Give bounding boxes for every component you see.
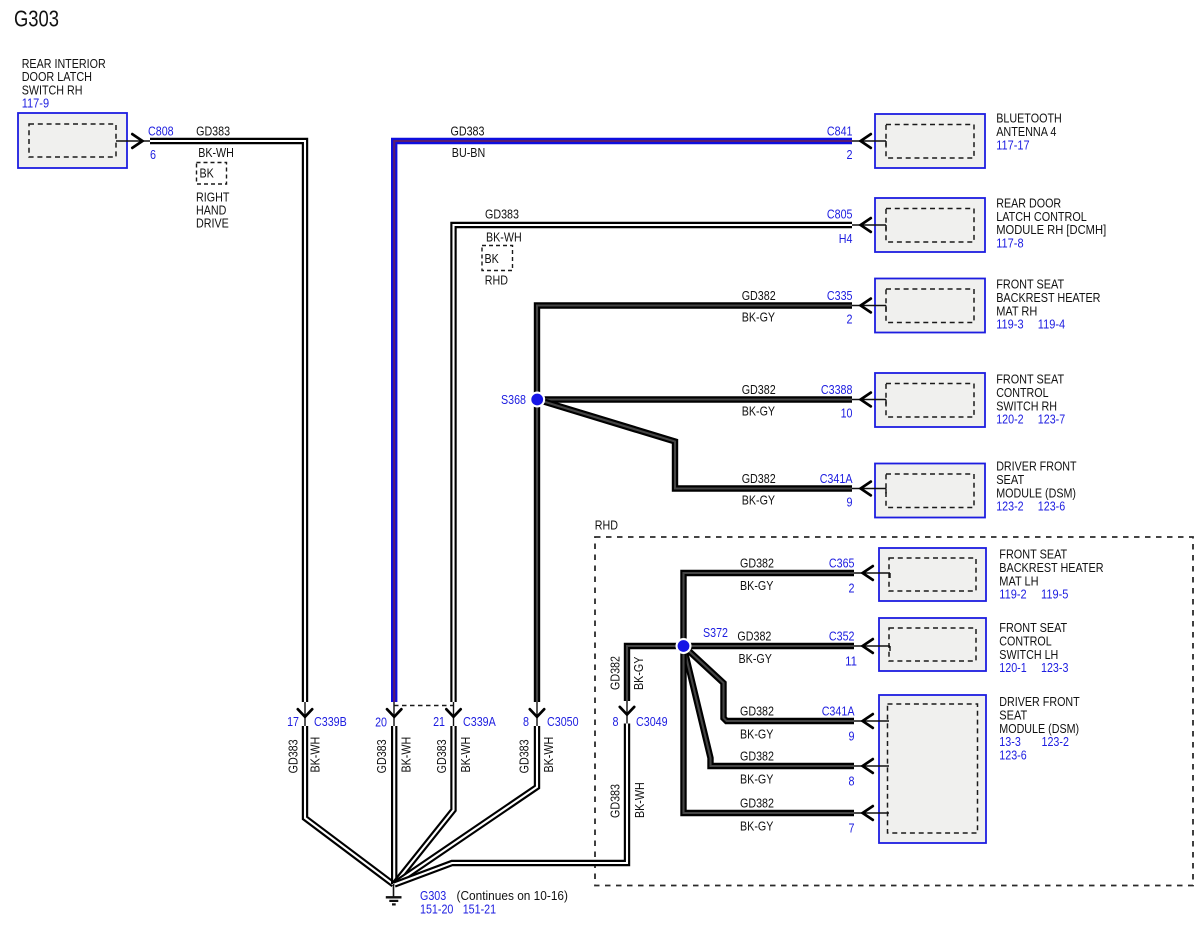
arrow C841 xyxy=(861,134,871,148)
svg-text:BK-WH: BK-WH xyxy=(198,145,234,160)
svg-text:BU-BN: BU-BN xyxy=(452,145,485,160)
component BLUETOOTH ANTENNA 4 box xyxy=(875,114,985,168)
ground G303 symbol xyxy=(393,884,395,897)
arrow C352 xyxy=(863,639,873,653)
arrow C3388 xyxy=(861,393,871,407)
dashed connector C339A outline xyxy=(394,705,454,707)
svg-text:GD383: GD383 xyxy=(196,123,230,138)
svg-text:BK: BK xyxy=(485,251,500,266)
pin lead C339A 21 xyxy=(453,701,455,726)
svg-text:GD383: GD383 xyxy=(516,739,531,773)
lead line into C352 box xyxy=(854,645,890,647)
wire GD382 BK-GY from C335 pin 2 down through S368 to C3050 pin 8 xyxy=(537,306,852,703)
svg-text:C808: C808 xyxy=(148,124,174,139)
svg-text:C365: C365 xyxy=(829,556,855,571)
svg-text:BK-GY: BK-GY xyxy=(740,578,774,593)
svg-text:BK-GY: BK-GY xyxy=(740,772,774,787)
svg-text:123-7: 123-7 xyxy=(1038,412,1065,427)
svg-text:9: 9 xyxy=(847,495,853,510)
svg-text:21: 21 xyxy=(433,714,445,729)
wire GD382 BK-GY from C365 pin 2 down to S372 xyxy=(684,573,855,646)
arrow C805 xyxy=(861,218,871,232)
wire GD382 BK-GY from S368 to C341A pin 9 xyxy=(537,400,852,489)
svg-text:117-17: 117-17 xyxy=(996,137,1029,152)
svg-text:DRIVE: DRIVE xyxy=(196,216,229,231)
wire GD382 BK-GY from S372 to DSM pin 8 xyxy=(684,646,855,766)
dashed option box BK (right hand drive) C808 xyxy=(197,163,227,185)
svg-text:123-6: 123-6 xyxy=(1038,499,1065,514)
arrow C808 xyxy=(132,134,142,148)
svg-text:2: 2 xyxy=(847,312,853,327)
arrow pin 8 C3049 xyxy=(620,707,634,715)
arrow DSM pin 8 xyxy=(863,759,873,773)
svg-text:117-9: 117-9 xyxy=(22,96,49,111)
svg-text:119-2: 119-2 xyxy=(999,587,1026,602)
pin lead C3049 8 xyxy=(626,700,628,724)
lead line into C805 box xyxy=(852,224,886,226)
wire GD382 BK-GY from S372 to DSM pin 7 xyxy=(684,646,855,813)
svg-text:GD383: GD383 xyxy=(608,784,623,818)
lead line into DSM pin 7 xyxy=(854,812,889,814)
wire GD383 BK-WH below pin 8 C3050 to ground xyxy=(395,726,538,884)
wire GD382 BK-GY from S372 to C352 pin 11 and left to C3049 pin 8 xyxy=(627,646,854,701)
arrow DSM pin 7 xyxy=(863,806,873,820)
svg-text:C339A: C339A xyxy=(463,714,496,729)
splice S368 xyxy=(529,392,545,408)
svg-text:BK-GY: BK-GY xyxy=(740,727,774,742)
svg-text:C841: C841 xyxy=(827,124,853,139)
wire GD383 BK-WH from C808 to C339B pin 17 xyxy=(150,141,305,702)
svg-text:120-1: 120-1 xyxy=(999,660,1026,675)
svg-text:GD383: GD383 xyxy=(285,739,300,773)
svg-text:C339B: C339B xyxy=(314,714,347,729)
component REAR INTERIOR DOOR LATCH SWITCH RH box xyxy=(18,113,127,168)
component FRONT SEAT CONTROL SWITCH RH box xyxy=(875,373,985,427)
svg-text:GD382: GD382 xyxy=(740,796,774,811)
svg-text:151-21: 151-21 xyxy=(463,902,496,917)
svg-text:BK-GY: BK-GY xyxy=(742,404,776,419)
svg-text:BK-WH: BK-WH xyxy=(486,230,522,245)
wire GD383 BK-WH below pin 21 to ground xyxy=(394,726,454,885)
svg-text:119-5: 119-5 xyxy=(1041,587,1068,602)
arrow pin 8 C3050 xyxy=(530,709,544,717)
wire GD383 BK-WH below C3049 pin 8 to ground xyxy=(395,724,628,885)
svg-text:RHD: RHD xyxy=(485,273,508,288)
svg-text:BK-GY: BK-GY xyxy=(742,310,776,325)
svg-text:2: 2 xyxy=(847,147,853,162)
arrow pin 21 C339A xyxy=(446,709,460,717)
svg-text:123-6: 123-6 xyxy=(999,748,1026,763)
svg-text:GD382: GD382 xyxy=(740,749,774,764)
pin lead C339A 20 xyxy=(393,701,395,726)
svg-text:117-8: 117-8 xyxy=(996,236,1023,251)
arrow pin 17 C339B xyxy=(298,709,312,717)
svg-text:GD382: GD382 xyxy=(742,471,776,486)
svg-text:123-2: 123-2 xyxy=(996,499,1023,514)
svg-text:C341A: C341A xyxy=(822,704,855,719)
wire GD383 BK-WH from C805 pin H4 to C339A pin 21 xyxy=(454,225,853,702)
arrow C341A xyxy=(861,482,871,496)
arrow DSM pin 9 xyxy=(863,714,873,728)
svg-text:BK-GY: BK-GY xyxy=(742,493,776,508)
svg-text:C352: C352 xyxy=(829,629,855,644)
arrow C365 xyxy=(863,566,873,580)
svg-text:RHD: RHD xyxy=(595,518,618,533)
svg-text:120-2: 120-2 xyxy=(996,412,1023,427)
dashed region RHD xyxy=(595,537,1193,886)
wire GD382 BK-GY from S372 to DSM C341A pin 9 xyxy=(684,646,855,721)
svg-text:BK-GY: BK-GY xyxy=(740,819,774,834)
svg-text:GD382: GD382 xyxy=(608,656,623,690)
svg-text:119-3: 119-3 xyxy=(996,317,1023,332)
svg-text:C335: C335 xyxy=(827,288,853,303)
svg-text:GD382: GD382 xyxy=(742,288,776,303)
dashed option box BK (RHD) C805 xyxy=(482,246,513,271)
lead line into C3388 box xyxy=(852,399,886,401)
svg-text:20: 20 xyxy=(375,715,387,730)
svg-text:S368: S368 xyxy=(501,392,526,407)
svg-text:8: 8 xyxy=(613,714,619,729)
svg-text:123-3: 123-3 xyxy=(1041,660,1068,675)
svg-text:GD383: GD383 xyxy=(485,207,519,222)
wire GD383 BU-BN from C841 pin 2 to C339A pin 20 xyxy=(394,141,852,702)
pin lead C3050 8 xyxy=(536,701,538,726)
svg-text:119-4: 119-4 xyxy=(1038,317,1065,332)
lead line into C341A box xyxy=(852,488,886,490)
lead line into C365 box xyxy=(854,572,890,574)
svg-text:10: 10 xyxy=(841,406,853,421)
svg-text:GD382: GD382 xyxy=(740,556,774,571)
component DRIVER FRONT SEAT MODULE DSM box xyxy=(875,464,985,518)
lead line into C335 box xyxy=(852,305,886,307)
svg-text:S372: S372 xyxy=(703,625,728,640)
svg-text:8: 8 xyxy=(523,714,529,729)
svg-text:7: 7 xyxy=(849,821,855,836)
wire GD382 BK-GY from S368 to C3388 pin 10 xyxy=(537,396,852,402)
svg-text:C3049: C3049 xyxy=(636,714,668,729)
svg-text:BK-GY: BK-GY xyxy=(739,651,773,666)
svg-text:2: 2 xyxy=(849,581,855,596)
svg-text:GD382: GD382 xyxy=(740,704,774,719)
svg-text:BK-WH: BK-WH xyxy=(308,737,323,773)
splice S372 xyxy=(676,638,692,654)
svg-text:9: 9 xyxy=(849,729,855,744)
svg-text:11: 11 xyxy=(845,654,857,669)
pin lead C339B 17 xyxy=(304,701,306,726)
component REAR DOOR LATCH CONTROL MODULE RH box xyxy=(875,198,985,252)
component FRONT SEAT BACKREST HEATER MAT LH box xyxy=(879,548,986,601)
svg-text:151-20: 151-20 xyxy=(420,902,453,917)
lead line into DSM pin 8 xyxy=(854,765,889,767)
svg-text:BK-WH: BK-WH xyxy=(632,782,647,818)
svg-text:C3388: C3388 xyxy=(821,382,853,397)
svg-text:H4: H4 xyxy=(839,231,853,246)
svg-text:GD382: GD382 xyxy=(742,382,776,397)
svg-text:GD383: GD383 xyxy=(434,739,449,773)
svg-text:C341A: C341A xyxy=(820,471,853,486)
svg-text:BK-GY: BK-GY xyxy=(631,656,646,690)
svg-text:GD383: GD383 xyxy=(374,739,389,773)
wire GD383 BK-WH below pin 20 to ground xyxy=(391,726,397,884)
svg-text:BK-WH: BK-WH xyxy=(541,737,556,773)
svg-text:GD383: GD383 xyxy=(451,123,485,138)
svg-text:8: 8 xyxy=(849,774,855,789)
svg-text:BK-WH: BK-WH xyxy=(399,737,414,773)
svg-text:C3050: C3050 xyxy=(547,714,579,729)
arrow pin 20 C339A xyxy=(387,709,401,717)
svg-text:BK: BK xyxy=(200,166,215,181)
svg-text:17: 17 xyxy=(287,714,299,729)
lead line C808 from switch box xyxy=(116,140,150,142)
lead line into C841 box xyxy=(852,140,886,142)
lead line into DSM pin 9 xyxy=(854,720,889,722)
svg-text:BK-WH: BK-WH xyxy=(458,737,473,773)
svg-text:6: 6 xyxy=(150,147,156,162)
component DRIVER FRONT SEAT MODULE DSM (RHD) box xyxy=(879,695,986,843)
arrow C335 xyxy=(861,299,871,313)
svg-text:G303: G303 xyxy=(14,6,59,32)
svg-text:GD382: GD382 xyxy=(737,629,771,644)
component FRONT SEAT BACKREST HEATER MAT RH box xyxy=(875,279,985,333)
wire GD383 BK-WH below pin 17 to ground xyxy=(305,726,394,885)
component FRONT SEAT CONTROL SWITCH LH box xyxy=(879,618,986,671)
svg-text:123-2: 123-2 xyxy=(1042,734,1069,749)
svg-text:C805: C805 xyxy=(827,207,853,222)
